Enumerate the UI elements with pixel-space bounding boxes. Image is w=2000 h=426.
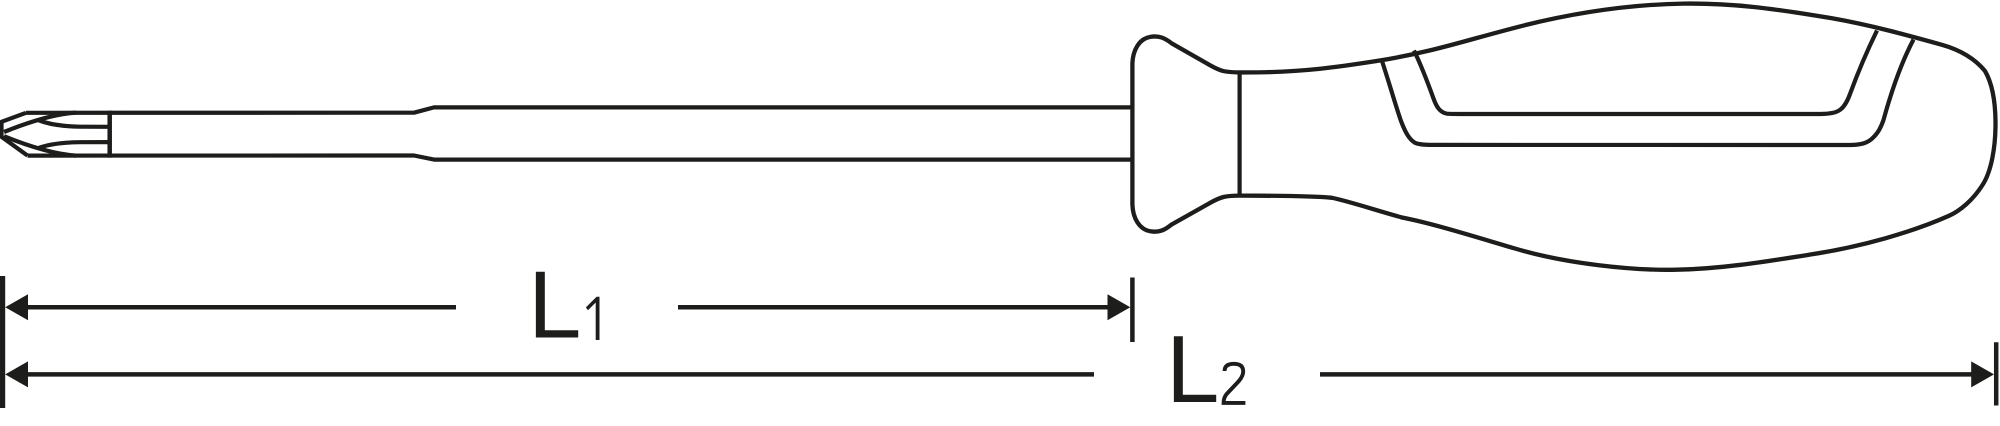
svg-text:L: L	[1166, 316, 1219, 423]
svg-text:L: L	[528, 252, 581, 359]
